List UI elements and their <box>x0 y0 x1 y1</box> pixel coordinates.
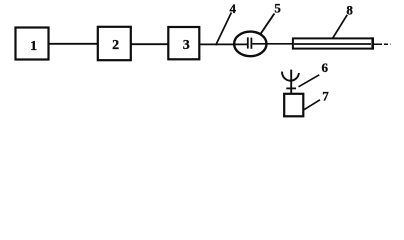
output beam dashed with arrow <box>374 43 391 45</box>
svg-text:1: 1 <box>30 39 37 54</box>
svg-text:8: 8 <box>346 2 353 17</box>
leader line 6 <box>299 75 320 87</box>
box 3 <box>168 27 199 59</box>
leader line 8 <box>333 15 347 38</box>
lamp U5 envelope <box>234 32 266 57</box>
detector 6 stem <box>290 70 292 93</box>
wire box1-box2 <box>49 43 97 45</box>
detector 6 dish arc <box>282 72 299 81</box>
box 1 <box>16 28 49 60</box>
svg-text:2: 2 <box>112 38 119 53</box>
wire box2-box3 <box>131 43 168 45</box>
box 2 <box>98 27 131 60</box>
svg-text:5: 5 <box>274 1 281 16</box>
tube 8 body <box>293 38 373 48</box>
lamp U5 right electrode plate <box>250 38 252 49</box>
tube 8 axis line <box>294 43 371 45</box>
svg-text:4: 4 <box>230 1 237 16</box>
svg-text:7: 7 <box>322 88 329 103</box>
leader line 4 <box>216 13 232 46</box>
wire box3-lamp <box>200 43 248 45</box>
wire lamp-tube <box>252 43 292 45</box>
detector 6 crossbar <box>286 87 296 89</box>
leader line 7 <box>303 100 320 111</box>
box 7 <box>284 94 303 117</box>
leader line 5 <box>261 14 275 34</box>
svg-text:6: 6 <box>322 60 329 75</box>
lamp U5 left electrode plate <box>247 37 249 48</box>
svg-text:3: 3 <box>183 38 190 53</box>
tube 8 right end cap <box>371 37 374 49</box>
